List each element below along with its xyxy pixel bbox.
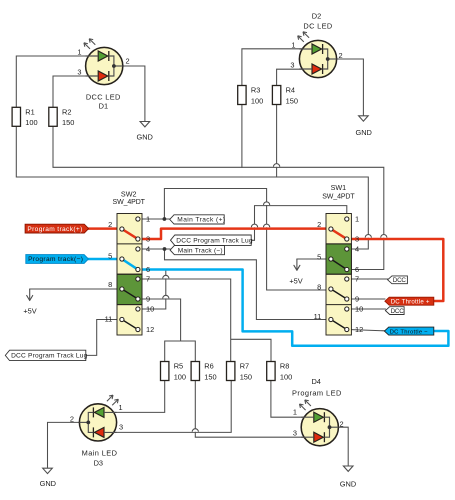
svg-text:R5: R5 [174, 362, 183, 371]
ground symbol GND at D3 [40, 468, 56, 488]
wire hop Lug riser over red [251, 224, 257, 227]
svg-text:R7: R7 [240, 362, 249, 371]
switch SW1 pin number labels [314, 215, 364, 335]
wire SW2 pin 4 to Main Track (-) flag [140, 248, 170, 250]
wire SW1 pin 10 to DCC flag [349, 308, 386, 310]
svg-text:1: 1 [77, 47, 81, 56]
svg-text:10: 10 [146, 305, 154, 314]
wire D4 pin 2 to GND [330, 427, 349, 466]
switch SW2 black lever pin 8 to pin 9 [122, 289, 138, 299]
net flag DC Throttle - at SW1 pin 12 [384, 327, 433, 335]
svg-text:11: 11 [314, 312, 322, 321]
switch SW1 SW_4PDT body [326, 214, 351, 336]
svg-text:12: 12 [355, 325, 363, 334]
svg-text:DCC: DCC [391, 308, 405, 315]
svg-text:R6: R6 [204, 362, 213, 371]
wire Program track(-) net to SW2 pin 10 [140, 270, 166, 310]
wire R1 bottom rail to SW1 pin 4 [16, 126, 368, 249]
svg-text:GND: GND [355, 128, 371, 137]
svg-text:6: 6 [355, 265, 359, 274]
resistor R1 (100) [12, 107, 38, 127]
svg-text:GND: GND [340, 479, 356, 488]
svg-text:2: 2 [317, 220, 321, 229]
wire D3 pin 2 to GND [48, 422, 89, 468]
svg-text:1: 1 [355, 215, 359, 224]
power symbol +5V at SW1 pin 5 [289, 259, 302, 285]
net flag DCC at SW1 pin 10 [385, 307, 404, 315]
wire SW1 pin 12 to DC Throttle - flag [349, 330, 385, 331]
svg-text:1: 1 [293, 408, 297, 417]
LED D3 name labels [82, 449, 118, 468]
LED D3 Main LED bicolor [79, 395, 118, 441]
svg-text:Program track(−): Program track(−) [28, 256, 83, 263]
switch SW2 SW_4PDT body [117, 214, 142, 336]
svg-text:1: 1 [291, 40, 295, 49]
svg-text:9: 9 [355, 295, 359, 304]
svg-text:SW_4PDT: SW_4PDT [322, 193, 355, 200]
resistor R3 (100) [238, 86, 264, 106]
wire R3 bottom [241, 105, 243, 168]
svg-text:4: 4 [146, 245, 150, 254]
svg-text:3: 3 [146, 235, 150, 244]
svg-text:3: 3 [355, 235, 359, 244]
switch SW2 name labels [113, 189, 146, 206]
wire SW2 pin 1 to Main Track (+) flag [140, 218, 170, 220]
svg-text:2: 2 [70, 414, 74, 423]
svg-text:Program LED: Program LED [292, 389, 342, 398]
LED D3 pin number labels [70, 403, 123, 431]
wire red SW1 pin 3 to DC Throttle + flag [349, 239, 444, 301]
switch SW1 name labels [322, 183, 355, 200]
wire hop pin1-net riser over red [264, 224, 270, 227]
svg-text:100: 100 [25, 118, 37, 127]
wire SW2 pin 11 to DCC Program Track Lug flag [86, 320, 120, 356]
svg-text:5: 5 [317, 253, 321, 262]
wire R4 bottom [276, 105, 278, 178]
svg-text:8: 8 [317, 283, 321, 292]
svg-text:8: 8 [108, 280, 112, 289]
wire D3 pin 3 to R7 bottom [104, 381, 231, 433]
svg-text:100: 100 [280, 372, 292, 381]
net flag DCC Program Track Lug at SW2 pin 11 [5, 350, 87, 360]
wire R3 top to D2 pin 1 [242, 49, 312, 86]
switch SW2 black lever pin 11 to pin 12 [122, 320, 138, 330]
LED D1 pin number labels [77, 47, 129, 76]
resistor R6 (150) [191, 362, 217, 382]
svg-text:D1: D1 [99, 101, 108, 110]
wire hop R2 rail riser over red [381, 235, 387, 238]
svg-text:R1: R1 [25, 108, 34, 117]
switch SW1 red lever pin 2 to pin 3 [331, 229, 347, 239]
wire red SW2 pin 3 to SW1 pin 2 [140, 229, 330, 239]
wire SW2 pin 8 to +5V [30, 288, 120, 290]
wire R6 bottom to D4 pin 3 [195, 381, 313, 438]
wire SW2 pin 7 to R7 and R8 [140, 279, 271, 362]
wire D3 pin 1 to R5 bottom [104, 381, 165, 413]
svg-text:2: 2 [339, 51, 343, 60]
resistor R7 (150) [227, 362, 253, 382]
svg-text:150: 150 [286, 96, 298, 105]
svg-text:3: 3 [290, 61, 294, 70]
svg-text:2: 2 [126, 57, 130, 66]
wire hop D3 pin3 run over R6 riser [192, 429, 198, 432]
svg-text:D4: D4 [311, 377, 320, 386]
power symbol +5V at SW2 pin 8 [23, 289, 36, 316]
switch SW2 cyan lever pin 5 to pin 6 [122, 259, 138, 270]
svg-text:SW1: SW1 [331, 183, 347, 192]
svg-text:3: 3 [77, 67, 81, 76]
switch SW1 black lever pin 5 to pin 6 [331, 259, 347, 270]
switch SW2 pin number labels [105, 215, 155, 335]
svg-text:5: 5 [108, 251, 112, 260]
svg-text:2: 2 [340, 420, 344, 429]
svg-text:DC Throttle +: DC Throttle + [391, 299, 430, 306]
svg-text:DCC Program Track Lug: DCC Program Track Lug [176, 238, 253, 245]
switch SW2 pin circles [120, 217, 140, 332]
svg-text:DCC LED: DCC LED [86, 93, 121, 102]
svg-text:2: 2 [108, 220, 112, 229]
resistor R4 (150) [272, 86, 298, 106]
resistor R8 (100) [267, 362, 293, 382]
svg-text:1: 1 [146, 215, 150, 224]
LED D4 pin number labels [293, 408, 344, 438]
wire SW1 pin 7 to DCC flag [349, 278, 388, 280]
wire SW1 pin 9 to DC Throttle + flag [349, 298, 385, 300]
net flag Main Track (-) [170, 246, 224, 255]
svg-text:100: 100 [251, 96, 263, 105]
ground symbol GND at D2 [355, 116, 371, 137]
wire hop R1 rail riser over red [365, 235, 371, 238]
junction SW2 pin 4 net [163, 247, 167, 251]
svg-text:150: 150 [62, 118, 74, 127]
wire Program track(+) red to SW2 pin 2 [89, 227, 121, 230]
svg-text:R4: R4 [286, 86, 295, 95]
wire SW2 pin 9 to R5 and R6 [140, 299, 195, 362]
wire hop SW2 pin9 run over pin10 riser [163, 295, 169, 298]
svg-text:3: 3 [293, 428, 297, 437]
wire D2 pin 2 to GND [328, 59, 364, 116]
svg-text:Main LED: Main LED [82, 449, 118, 458]
svg-text:10: 10 [355, 305, 363, 314]
LED D1 name labels [86, 93, 121, 111]
wire SW2 pin 4 net to SW1 pin 11 [165, 249, 330, 320]
svg-text:100: 100 [174, 372, 186, 381]
svg-text:GND: GND [40, 479, 56, 488]
ground symbol GND at D1 [136, 122, 152, 142]
wire D1 pin 2 to GND [114, 66, 145, 122]
junction SW2 pin 1 net [163, 217, 167, 221]
wire R2 bottom rail to SW1 pin 6 [53, 126, 384, 270]
svg-text:Program track(+): Program track(+) [27, 226, 82, 233]
wire hop SW2 pin7 run over pin10 riser [163, 275, 169, 278]
switch SW1 black lever pin 11 to pin 12 [331, 320, 347, 330]
wire SW2 pin 1 net to SW1 pin 8 [164, 189, 329, 291]
svg-text:Main Track (−): Main Track (−) [178, 247, 223, 254]
svg-text:DCC Program Track Lug: DCC Program Track Lug [11, 353, 88, 360]
svg-text:R8: R8 [280, 362, 289, 371]
LED D2 name labels [303, 12, 332, 31]
wire R8 bottom to D4 pin 1 [271, 381, 314, 418]
LED D4 name labels [292, 377, 342, 398]
LED D4 Program LED bicolor [300, 400, 339, 446]
LED D1 DCC LED bicolor [84, 39, 123, 85]
svg-text:3: 3 [119, 422, 123, 431]
svg-text:R2: R2 [62, 108, 71, 117]
svg-text:12: 12 [146, 325, 154, 334]
net flag Program track(+) [25, 224, 89, 233]
svg-text:GND: GND [136, 133, 152, 142]
switch SW1 pin circles [329, 217, 349, 332]
svg-text:150: 150 [204, 372, 216, 381]
svg-text:7: 7 [146, 275, 150, 284]
wire R1 top to D1 pin 1 [16, 56, 98, 108]
wire hop Lug run over pin1-net riser [264, 202, 270, 205]
svg-text:SW2: SW2 [121, 189, 137, 198]
ground symbol GND at D4 [340, 466, 356, 488]
svg-text:DC Throttle −: DC Throttle − [390, 329, 429, 335]
svg-text:11: 11 [105, 314, 113, 323]
svg-text:DCC: DCC [393, 277, 407, 284]
switch SW2 red lever pin 2 to pin 3 [122, 229, 138, 239]
svg-text:1: 1 [119, 403, 123, 412]
svg-text:4: 4 [355, 245, 359, 254]
net flag DCC at SW1 pin 7 [388, 276, 408, 284]
svg-text:+5V: +5V [23, 307, 36, 316]
svg-text:D3: D3 [94, 459, 103, 468]
net flag Main Track (+) [170, 215, 226, 224]
wire SW1 pin 5 to +5V [297, 258, 329, 260]
LED D2 DC LED bicolor [298, 32, 337, 78]
svg-text:Main Track (+): Main Track (+) [177, 217, 225, 224]
svg-text:7: 7 [355, 275, 359, 284]
wire DCC Program Track Lug flag to SW1 pin 1 [251, 206, 347, 241]
wire Program track(-) cyan to SW2 pin 5 [88, 258, 120, 261]
switch SW1 black lever pin 8 to pin 9 [331, 289, 347, 299]
svg-text:9: 9 [146, 295, 150, 304]
svg-text:+5V: +5V [289, 276, 302, 285]
wire R4 top to D2 pin 3 [277, 69, 312, 85]
svg-text:DC LED: DC LED [303, 22, 332, 31]
svg-text:D2: D2 [312, 12, 321, 21]
svg-text:6: 6 [146, 265, 150, 274]
net flag Program track(-) [26, 255, 89, 264]
svg-text:R3: R3 [251, 86, 260, 95]
resistor R2 (150) [49, 107, 75, 127]
svg-text:SW_4PDT: SW_4PDT [113, 199, 146, 206]
wire R2 top to D1 pin 3 [53, 76, 98, 108]
net flag DC Throttle + at SW1 pin 9 [385, 297, 434, 305]
net flag DCC Program Track Lug at SW2 pin 3 [171, 235, 253, 245]
wire cyan SW2 pin 6 to DC Throttle - flag [140, 270, 448, 346]
resistor R5 (100) [161, 362, 187, 382]
LED D2 pin number labels [290, 40, 342, 69]
wire hop R2 rail over R4 riser [274, 164, 280, 167]
svg-text:150: 150 [240, 372, 252, 381]
